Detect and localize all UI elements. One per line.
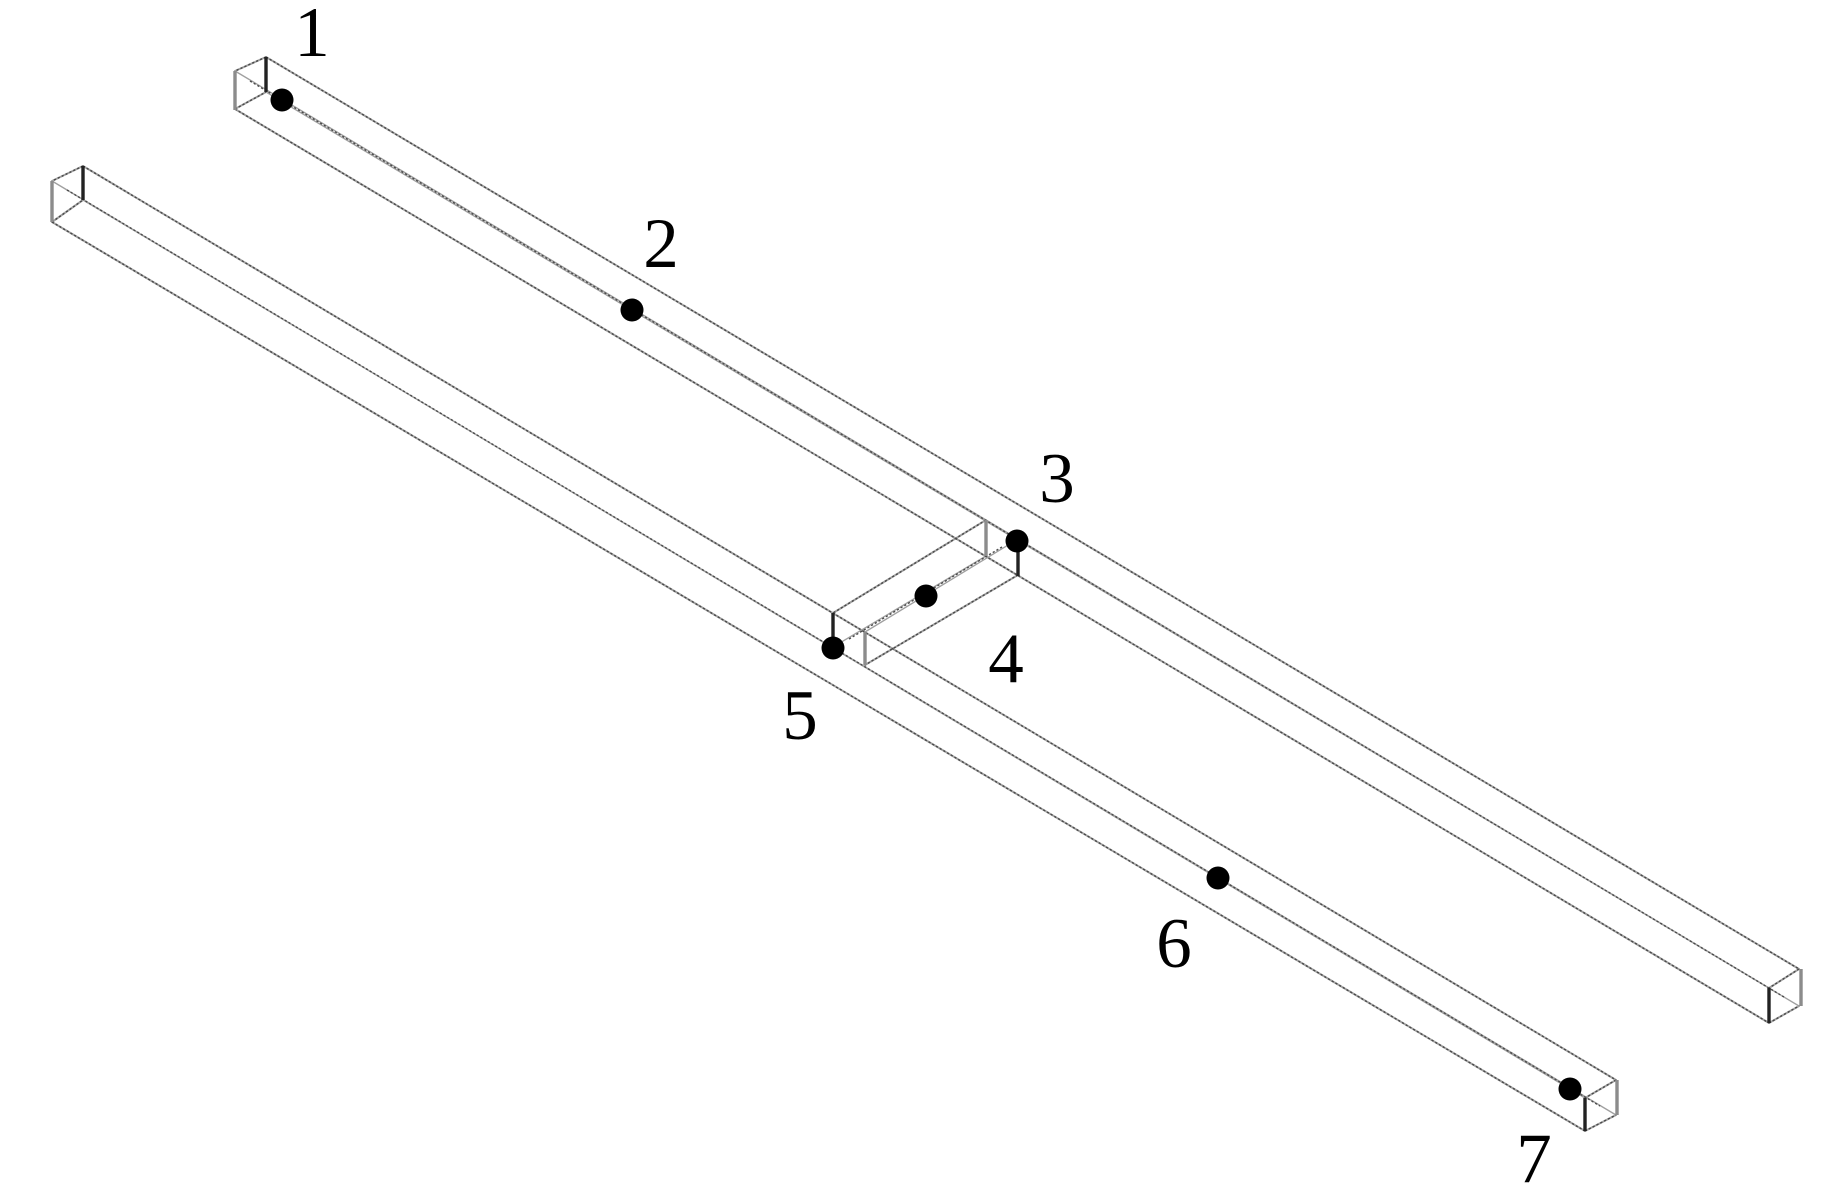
svg-text:1: 1 — [294, 0, 330, 72]
svg-text:4: 4 — [988, 620, 1024, 698]
svg-text:3: 3 — [1039, 440, 1075, 518]
svg-text:2: 2 — [643, 205, 679, 283]
svg-text:7: 7 — [1516, 1120, 1552, 1198]
svg-text:6: 6 — [1156, 905, 1192, 983]
svg-text:5: 5 — [782, 677, 818, 755]
